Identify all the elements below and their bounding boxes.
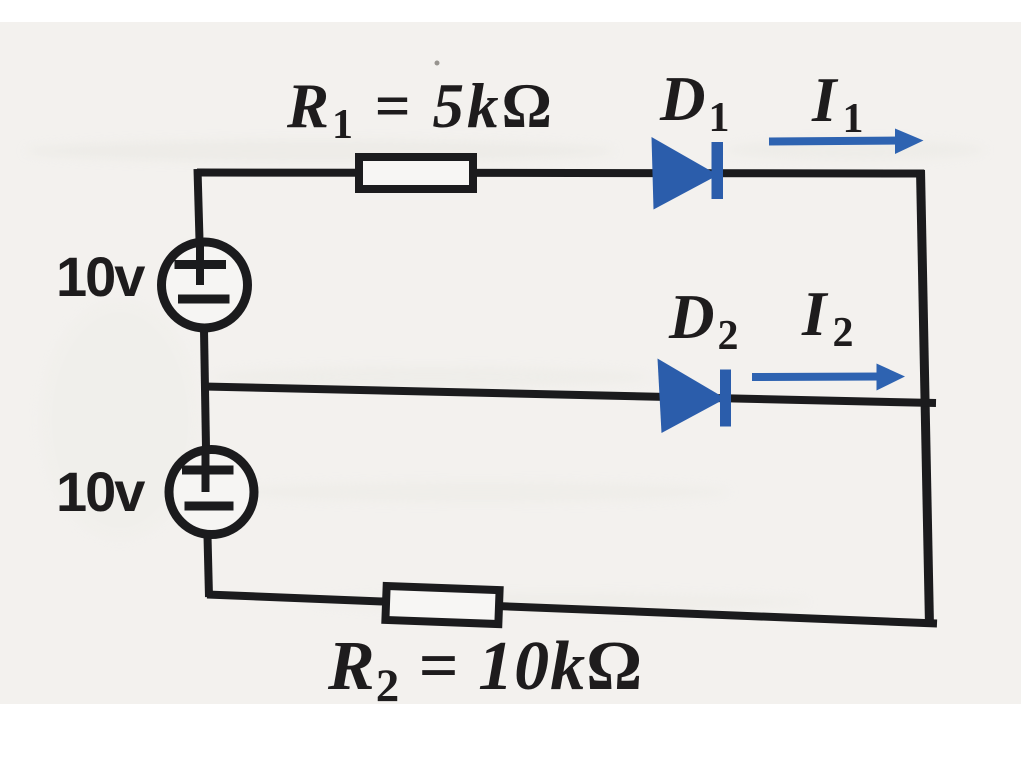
wire: right vertical wire [921,170,930,626]
voltage source V2 (10v) circle [169,450,254,535]
current arrow I1 [769,129,924,155]
svg-text:R2 = 10kΩ: R2 = 10kΩ [327,628,643,712]
V1 minus sign [178,295,230,304]
V2 minus sign [185,502,234,511]
wire: left vertical, middle segment between sources [204,330,206,448]
V2 plus sign [182,466,234,475]
svg-text:10v: 10v [56,245,145,308]
diode D2 [658,359,732,434]
resistor R2 [385,586,499,624]
current arrow I2 [752,364,905,391]
svg-text:10v: 10v [56,460,145,523]
wire: middle wire (V1-/V2+ node to D2 and right wire) [204,387,936,404]
wire: left vertical, top segment [198,169,200,240]
wire: bottom wire (through R2 to bottom-right corner) [207,595,937,624]
voltage source V1 (10v) circle [162,242,248,328]
diode D1 [652,137,724,210]
resistor R1 [359,157,473,189]
V1 plus sign [175,260,227,269]
svg-text:R1 = 5kΩ: R1 = 5kΩ [286,71,555,148]
wire: top wire (node from V1+ through R1 and D1 to top-right corner) [197,173,924,174]
wire: left vertical, bottom segment [208,536,210,597]
